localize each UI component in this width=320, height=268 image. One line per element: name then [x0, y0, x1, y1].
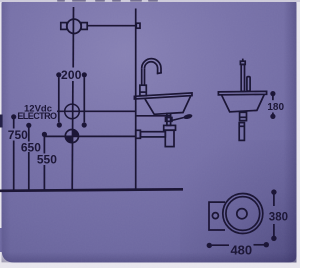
side faucet pipe	[241, 64, 244, 91]
spout tip	[157, 72, 162, 75]
side lower pipe	[239, 123, 244, 141]
sink front bowl	[145, 96, 191, 115]
svg-text:550: 550	[37, 152, 57, 166]
drain pipe to wall	[140, 132, 165, 137]
top view tab	[209, 202, 225, 230]
dim 650 leader lower	[28, 152, 30, 190]
valve union right tab	[81, 23, 87, 30]
drain nut front	[166, 118, 172, 122]
dim 180 lower leader	[272, 113, 274, 115]
dim 200 extension right	[83, 77, 85, 122]
wall line	[135, 9, 137, 190]
svg-text:ELECTRO: ELECTRO	[17, 111, 57, 121]
dim 750 leader lower	[13, 141, 15, 191]
dim 200 extension left	[58, 77, 60, 122]
dim 180 dot top	[270, 91, 275, 96]
top view drain circle	[237, 209, 247, 219]
dim 380 lower leader	[273, 224, 275, 236]
dim 480 left segment	[212, 244, 229, 246]
left shadow band	[0, 0, 1, 1]
dim 550 leader lower	[43, 165, 45, 190]
dim 650 dot	[26, 123, 31, 128]
trap cap	[164, 125, 176, 130]
side tailpiece midline	[240, 116, 247, 118]
dim 750 dot	[11, 114, 16, 119]
dim 550 dot	[42, 132, 47, 137]
dim 180 upper leader	[272, 96, 274, 100]
quadrant SW fill	[65, 136, 72, 143]
drain tube front	[167, 114, 171, 126]
dim 480 dot right	[264, 242, 269, 247]
wire: central riser upper	[72, 7, 74, 68]
quadrant NE fill	[72, 130, 79, 137]
faucet riser right edge	[144, 68, 146, 85]
dim 380 dot top	[271, 189, 276, 194]
dim 200 lower dot right	[82, 122, 87, 127]
cropped text smudge at top	[57, 0, 158, 2]
dim 480 right segment	[254, 244, 265, 246]
svg-text:480: 480	[230, 242, 252, 257]
dim 200 lower dot left	[57, 122, 62, 127]
pop-up lever rod	[172, 118, 184, 121]
wire: central riser lower	[71, 81, 74, 190]
svg-text:180: 180	[267, 102, 284, 113]
left edge dark tick	[0, 115, 3, 128]
trap body	[165, 130, 174, 146]
sink side rim	[218, 91, 266, 95]
side lower pipe cap line	[239, 125, 244, 127]
dim 650 leader upper	[28, 128, 30, 142]
wire: supply line	[57, 110, 136, 112]
drain pipe flange	[136, 130, 141, 138]
floor line	[0, 189, 183, 191]
faucet base front	[140, 85, 146, 96]
bottom shadow band	[2, 252, 297, 263]
electrovalve EV1	[65, 104, 80, 119]
svg-text:200: 200	[61, 68, 82, 82]
faucet riser left edge	[141, 68, 143, 85]
wire: top line to wall	[87, 25, 135, 27]
dim 200 dot left	[56, 72, 61, 77]
sink side bowl	[222, 94, 265, 112]
valve union U1 circle	[67, 19, 81, 33]
side tailpiece	[240, 112, 247, 120]
side faucet hand spray	[247, 77, 250, 92]
dim 180 dot bottom	[270, 114, 275, 119]
dim 550 leader upper	[43, 137, 45, 154]
lever knob	[183, 113, 193, 119]
dim 380 dot bottom	[271, 236, 276, 241]
top view outer circle	[223, 194, 263, 234]
dim 750 leader upper	[13, 119, 15, 129]
valve union left tab	[61, 23, 67, 30]
top view inner circle	[226, 197, 260, 231]
wire: drain line	[44, 135, 135, 137]
svg-text:380: 380	[269, 212, 288, 224]
top view tap hole	[212, 213, 218, 219]
side faucet tip	[242, 59, 244, 62]
dim 200 dot right	[82, 72, 87, 77]
wire: bracket stub right of wall	[136, 115, 171, 117]
gooseneck outer arc	[142, 59, 161, 73]
gooseneck inner arc	[145, 62, 158, 73]
faucet base midline	[140, 91, 146, 93]
sink front rim	[134, 93, 192, 99]
dim 380 upper leader	[273, 195, 275, 207]
wall anchor top	[136, 23, 140, 28]
left edge purple bleed	[0, 228, 3, 252]
quadrant connection symbol	[65, 130, 78, 143]
side faucet cap	[240, 61, 245, 64]
right shadow band	[284, 2, 297, 263]
dim 480 dot left	[207, 243, 212, 248]
